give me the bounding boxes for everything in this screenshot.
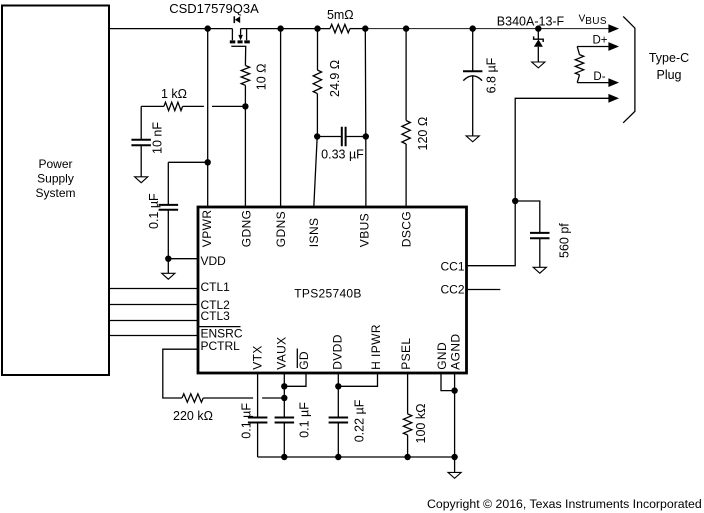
node junction GND-AGND: [451, 387, 457, 393]
node junction GD-VAUX: [281, 383, 287, 389]
type-C plug bracket: [623, 16, 689, 122]
node junction rail PSEL: [404, 454, 410, 460]
node junction ISNS rail: [314, 25, 320, 31]
svg-text:VDD: VDD: [201, 254, 227, 268]
svg-text:10 Ω: 10 Ω: [254, 63, 268, 90]
svg-text:Supply: Supply: [37, 172, 74, 186]
svg-text:System: System: [35, 186, 75, 200]
node junction 0.1uF to VPWR: [205, 159, 211, 165]
node junction 6.8uF rail: [470, 25, 476, 31]
resistor R3 1 kohm: [161, 87, 187, 111]
node pin label GD: [297, 349, 311, 370]
node junction gate drive: [242, 103, 248, 109]
power supply system block: [2, 6, 109, 376]
node CC arrow: [608, 94, 619, 103]
svg-text:5mΩ: 5mΩ: [327, 8, 354, 22]
svg-text:ISNS: ISNS: [307, 218, 321, 248]
transistor Q1 CSD17579Q3A: [169, 1, 259, 66]
resistor R5 24.9 ohm: [313, 29, 342, 137]
wire CTL3: [109, 320, 198, 322]
svg-text:0.1 µF: 0.1 µF: [298, 402, 312, 438]
svg-text:TPS25740B: TPS25740B: [294, 287, 361, 301]
svg-text:0.1 µF: 0.1 µF: [240, 403, 254, 439]
wire GD pin jog: [284, 373, 306, 386]
node junction rail AGND: [451, 454, 457, 460]
diode D1 B340A-13-F schottky: [497, 14, 565, 62]
svg-text:Type-C: Type-C: [649, 51, 689, 65]
node junction VBUS mid: [363, 133, 369, 139]
resistor R6 120 ohm: [402, 29, 430, 207]
wire D+ line: [577, 46, 612, 48]
node junction rail VAUX: [281, 454, 287, 460]
wire AGND to ground: [454, 457, 456, 472]
svg-text:6.8 µF: 6.8 µF: [485, 57, 499, 93]
svg-text:GDNS: GDNS: [274, 211, 288, 247]
wire 1k right lead with hop gap over VPWR: [183, 105, 246, 107]
ground VDD: [162, 273, 175, 279]
svg-text:GND: GND: [435, 342, 449, 370]
svg-text:Power: Power: [38, 157, 72, 171]
svg-text:H IPWR: H IPWR: [369, 324, 383, 370]
svg-text:CC2: CC2: [440, 283, 464, 297]
node junction ISNS: [314, 133, 320, 139]
resistor R4 220 kohm: [173, 394, 213, 423]
capacitor C4 6.8 uF polarized: [463, 29, 499, 136]
wire VDD to ground stem: [167, 259, 169, 274]
node junction 220k-VAUX: [281, 395, 287, 401]
capacitor C2 0.1 uF: [147, 162, 208, 258]
ground 10nF: [135, 177, 148, 183]
ground schottky: [532, 62, 545, 68]
IC U1 TPS25740B body: [198, 207, 467, 373]
node junction DSCG rail: [403, 25, 409, 31]
svg-text:CTL3: CTL3: [201, 309, 231, 323]
svg-text:VPWR: VPWR: [200, 210, 214, 248]
resistor R7 between D+ and D-: [575, 47, 583, 83]
node junction CC 560pf: [512, 198, 518, 204]
svg-text:D-: D-: [593, 71, 605, 83]
capacitor C7 0.1 uF on VAUX: [275, 373, 312, 457]
node junction VBUS pin rail: [362, 25, 368, 31]
wire GND pin jog: [441, 373, 455, 391]
wire top rail from power supply to MOSFET: [109, 28, 232, 30]
svg-text:CSD17579Q3A: CSD17579Q3A: [169, 1, 259, 16]
wire D- line: [577, 82, 612, 84]
capacitor C3 0.33 uF: [317, 127, 365, 162]
wire bottom ground rail: [258, 456, 455, 458]
node junction schottky rail: [535, 25, 541, 31]
svg-text:CC1: CC1: [440, 260, 464, 274]
wire VBUS pin vertical: [364, 29, 367, 207]
wire GDNS vertical: [280, 29, 282, 207]
svg-text:PSEL: PSEL: [399, 338, 413, 370]
svg-text:CTL1: CTL1: [201, 280, 231, 294]
ground 560pf: [533, 267, 546, 273]
svg-text:DVDD: DVDD: [330, 334, 344, 370]
node junction rail DVDD: [335, 454, 341, 460]
svg-text:10 nF: 10 nF: [151, 122, 165, 154]
capacitor C6 0.1 uF on VTX: [240, 373, 268, 457]
wire top rail 5m ohm to VBUS arrow: [350, 28, 365, 30]
node VBUS output arrow: [608, 24, 619, 33]
resistor R1 5m ohm sense: [327, 8, 354, 33]
node pin label ENSRC: [199, 327, 243, 341]
svg-text:Copyright © 2016, Texas Instru: Copyright © 2016, Texas Instruments Inco…: [427, 497, 702, 511]
svg-text:DSCG: DSCG: [400, 211, 414, 247]
svg-text:GD: GD: [297, 351, 311, 370]
svg-text:PCTRL: PCTRL: [201, 339, 241, 353]
wire HIPWR pin jog: [338, 373, 377, 386]
wire CC1 to plug: [467, 98, 613, 265]
wire VPWR vertical: [207, 29, 209, 207]
wire ENSRC: [109, 335, 198, 337]
wire AGND vertical: [454, 373, 456, 457]
svg-text:VTX: VTX: [250, 345, 264, 370]
svg-text:1 kΩ: 1 kΩ: [161, 87, 187, 101]
wire 220k to VAUX with hop gap over VTX: [203, 397, 284, 399]
wire top rail MOSFET to 5m ohm sense resistor: [241, 28, 330, 30]
svg-text:0.22 µF: 0.22 µF: [352, 399, 366, 442]
node junction GDNS rail: [277, 25, 283, 31]
ground main: [448, 472, 461, 478]
svg-text:BUS: BUS: [585, 16, 607, 27]
wire ISNS pin lead: [314, 137, 317, 208]
ground 6.8uF: [466, 136, 479, 142]
svg-text:24.9 Ω: 24.9 Ω: [328, 60, 342, 97]
wire 10 ohm to GDNG pin: [244, 85, 246, 207]
svg-text:560 pf: 560 pf: [557, 223, 571, 258]
svg-text:Plug: Plug: [656, 68, 681, 82]
wire CTL2: [109, 304, 198, 306]
wire PCTRL to 220k: [163, 349, 198, 398]
svg-text:AGND: AGND: [449, 334, 463, 370]
svg-text:GDNG: GDNG: [239, 210, 253, 248]
node D+ arrow: [608, 42, 619, 51]
node junction VPWR rail: [205, 25, 211, 31]
wire VDD pin: [168, 258, 198, 260]
svg-text:VAUX: VAUX: [274, 336, 288, 369]
svg-text:0.33 µF: 0.33 µF: [321, 148, 364, 162]
svg-text:B340A-13-F: B340A-13-F: [497, 14, 565, 28]
resistor R8 100 kohm on PSEL: [403, 373, 428, 457]
wire 1k left lead: [141, 105, 164, 107]
svg-text:D+: D+: [592, 34, 607, 46]
svg-text:120 Ω: 120 Ω: [416, 117, 430, 151]
svg-text:100 kΩ: 100 kΩ: [414, 404, 428, 444]
capacitor C1 10 nF: [131, 106, 164, 176]
resistor R2 10 ohm: [241, 63, 268, 90]
node D- arrow: [608, 78, 619, 87]
capacitor C8 0.22 uF on DVDD: [329, 373, 367, 457]
svg-text:0.1 µF: 0.1 µF: [147, 193, 161, 229]
node junction HIPWR-DVDD: [335, 383, 341, 389]
wire CC2 stub: [467, 289, 501, 291]
node junction VDD: [165, 256, 171, 262]
svg-text:VBUS: VBUS: [358, 213, 372, 247]
svg-text:220 kΩ: 220 kΩ: [173, 409, 213, 423]
node VBUS label: [579, 13, 607, 27]
wire CTL1: [109, 288, 198, 290]
capacitor C5 560 pf: [515, 201, 571, 267]
